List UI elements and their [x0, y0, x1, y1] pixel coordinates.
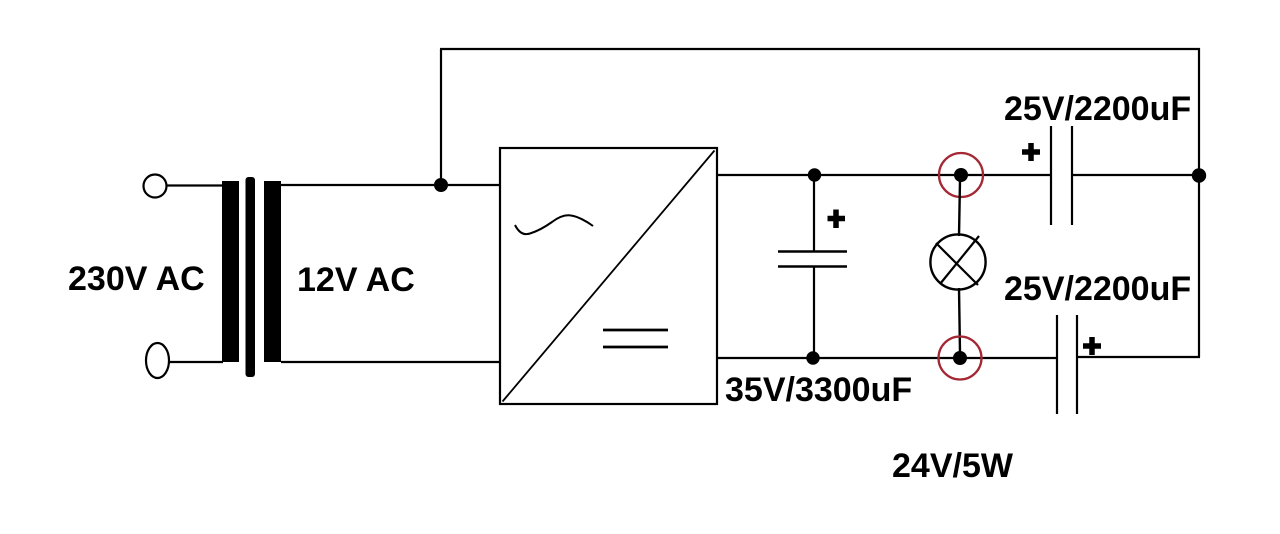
svg-text:25V/2200uF: 25V/2200uF — [1004, 270, 1191, 308]
svg-text:25V/2200uF: 25V/2200uF — [1004, 90, 1191, 128]
capacitor C2 plates — [1051, 126, 1072, 225]
wire rectifier - output — [717, 357, 1056, 359]
terminal J2 bottom input — [146, 343, 169, 378]
capacitor C2 polarity + — [1022, 143, 1040, 161]
wire right rail vertical — [1198, 48, 1200, 357]
rectifier U1 diagonal — [503, 151, 715, 402]
svg-text:24V/5W: 24V/5W — [892, 447, 1014, 485]
lamp terminal marker top (red ring) — [939, 153, 983, 197]
wire left riser from node A to top rail — [440, 49, 442, 186]
wire top rail horizontal — [440, 48, 1200, 50]
svg-text:12V AC: 12V AC — [297, 261, 415, 299]
svg-text:35V/3300uF: 35V/3300uF — [725, 371, 912, 409]
node junction dot at C1 bottom — [806, 351, 819, 364]
capacitor C1 polarity + — [828, 210, 846, 229]
wire J1 to transformer primary — [166, 184, 223, 186]
wire transformer secondary top to rectifier — [281, 184, 500, 186]
svg-text:230V AC: 230V AC — [68, 260, 205, 298]
wire transformer secondary bottom to rectifier — [281, 361, 500, 363]
capacitor C1 plates — [778, 252, 847, 267]
rectifier U1 DC symbol — [603, 330, 668, 347]
wire J2 to transformer primary — [169, 361, 223, 363]
wire rectifier + output — [717, 174, 1050, 176]
terminal J1 top input — [144, 175, 167, 198]
capacitor C1 top lead — [813, 175, 815, 251]
capacitor C3 polarity + — [1083, 337, 1101, 355]
capacitor C1 bottom lead — [813, 267, 815, 358]
wire C3 right lead to right rail — [1078, 356, 1200, 358]
wire lamp top lead — [959, 180, 960, 236]
transformer T1 — [222, 177, 281, 377]
capacitor C3 plates — [1057, 315, 1077, 414]
node junction dot at C1 top — [808, 168, 821, 181]
rectifier U1 box — [500, 148, 717, 404]
node lamp bottom dot — [953, 351, 967, 365]
wire lamp bottom lead — [959, 288, 960, 353]
node A junction dot — [434, 178, 448, 192]
wire C2 right lead to right rail — [1073, 174, 1200, 176]
rectifier U1 AC sine symbol — [515, 215, 593, 234]
lamp terminal marker bottom (red ring) — [939, 337, 982, 380]
lamp LA1 cross — [936, 236, 979, 285]
node lamp top dot — [954, 168, 968, 182]
node right rail junction dot — [1192, 168, 1206, 182]
lamp LA1 circle — [930, 234, 985, 289]
